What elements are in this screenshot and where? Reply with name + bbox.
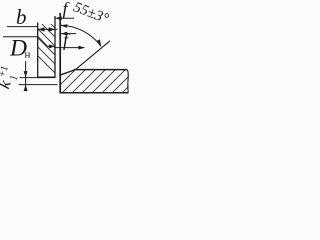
svg-text:н: н — [25, 49, 31, 61]
svg-text:b: b — [16, 5, 27, 29]
